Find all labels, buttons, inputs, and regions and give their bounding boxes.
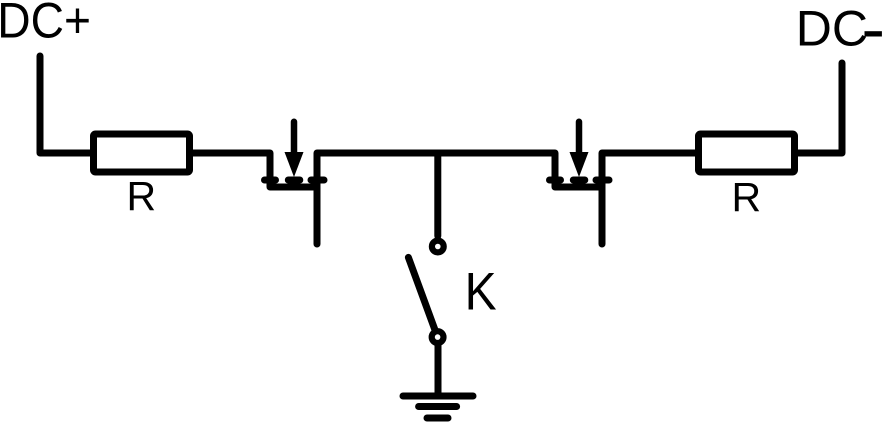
- svg-text:K: K: [465, 262, 497, 321]
- svg-text:DC+: DC+: [0, 0, 91, 49]
- svg-text:DC: DC: [796, 1, 868, 57]
- svg-text:R: R: [127, 173, 157, 219]
- svg-text:R: R: [732, 174, 762, 220]
